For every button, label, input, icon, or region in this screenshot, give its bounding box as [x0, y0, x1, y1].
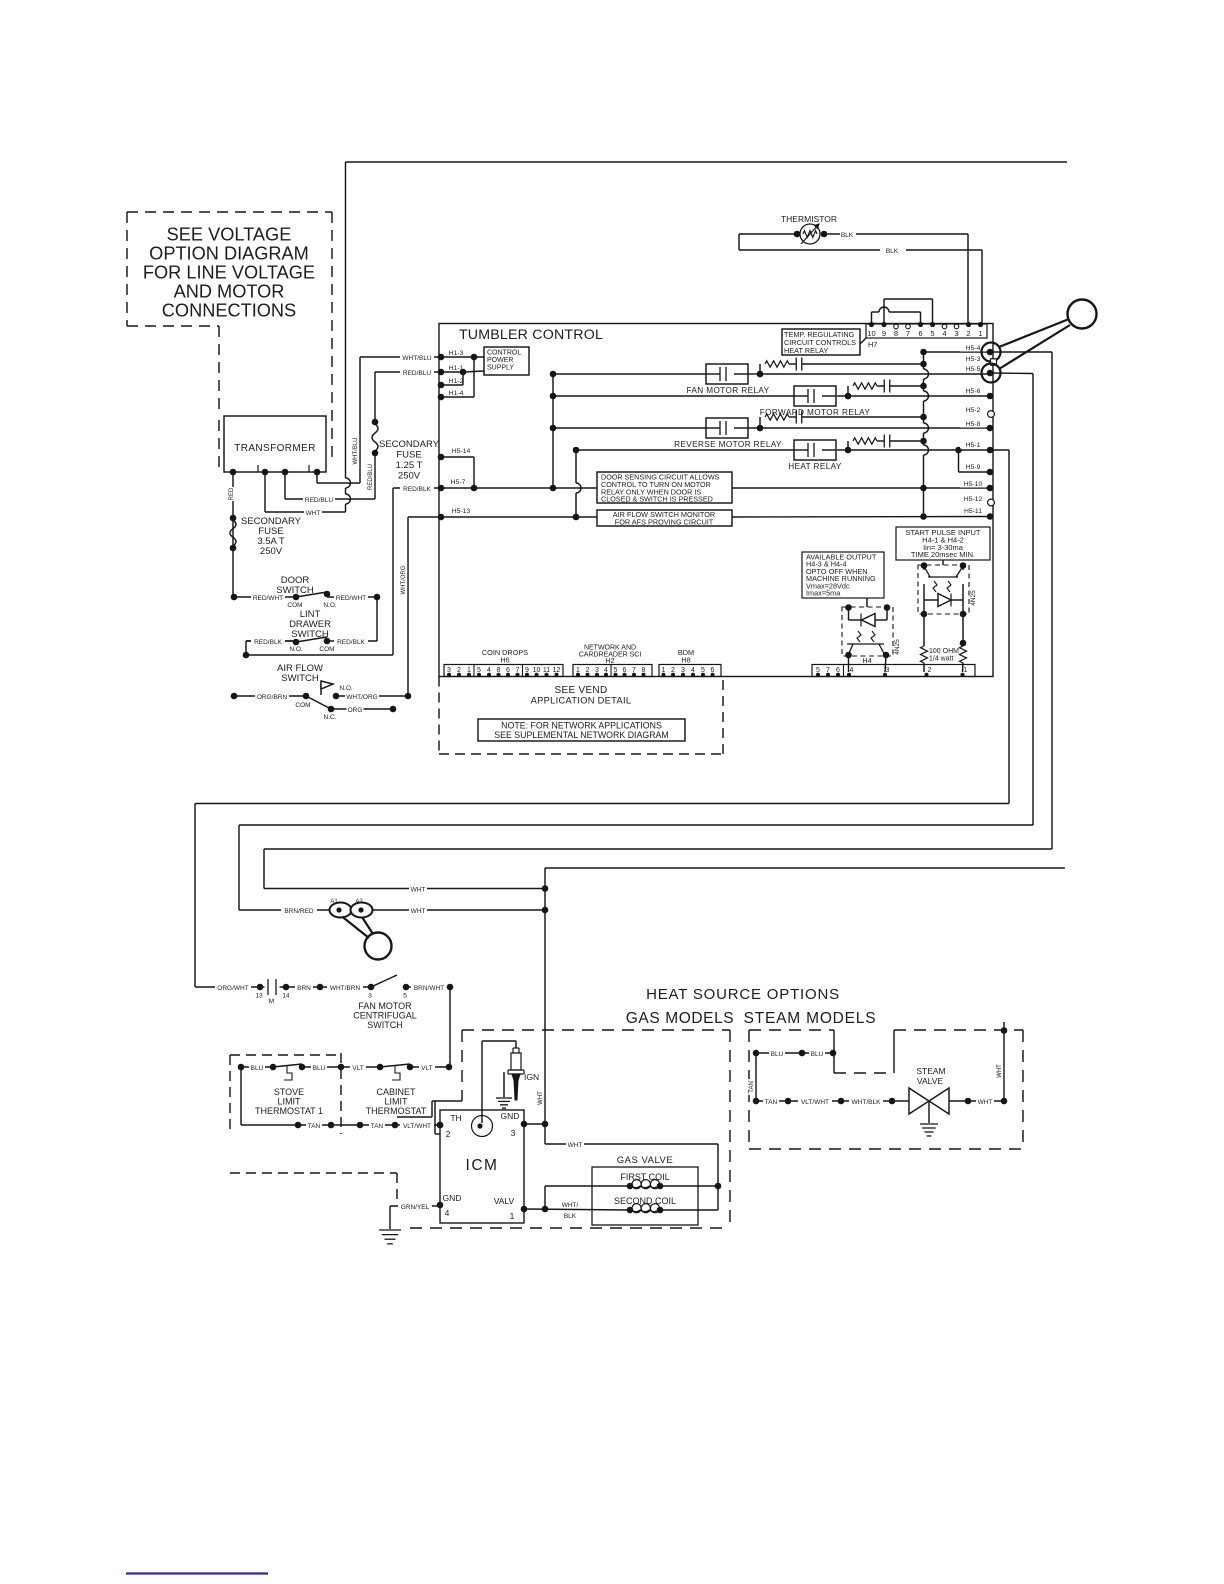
svg-text:H5-1: H5-1 — [966, 442, 981, 449]
svg-text:RED/WHT: RED/WHT — [336, 595, 366, 602]
svg-text:8: 8 — [894, 329, 898, 338]
svg-text:WHT/BLU: WHT/BLU — [402, 355, 432, 362]
svg-text:BRN/RED: BRN/RED — [284, 908, 314, 915]
svg-text:WHT/BLK: WHT/BLK — [852, 1099, 882, 1106]
svg-text:BLU: BLU — [811, 1051, 824, 1058]
svg-text:1: 1 — [510, 1211, 515, 1221]
svg-text:ORG/BRN: ORG/BRN — [257, 694, 288, 701]
svg-text:H5-6: H5-6 — [966, 388, 981, 395]
svg-text:BLK: BLK — [841, 232, 854, 239]
svg-text:BLU: BLU — [771, 1051, 784, 1058]
svg-text:CENTRIFUGAL: CENTRIFUGAL — [353, 1011, 417, 1021]
svg-text:HEAT RELAY: HEAT RELAY — [784, 346, 828, 355]
svg-text:TAN: TAN — [749, 1081, 755, 1093]
svg-text:H5-11: H5-11 — [964, 508, 982, 515]
svg-text:TH: TH — [450, 1113, 461, 1123]
svg-text:APPLICATION DETAIL: APPLICATION DETAIL — [531, 696, 632, 706]
svg-text:FAN MOTOR: FAN MOTOR — [358, 1001, 412, 1011]
svg-text:4: 4 — [850, 667, 854, 674]
svg-text:1: 1 — [978, 329, 982, 338]
svg-text:TIME 20msec MIN.: TIME 20msec MIN. — [911, 550, 975, 559]
svg-text:GAS MODELS: GAS MODELS — [626, 1010, 735, 1027]
svg-text:RED/BLU: RED/BLU — [403, 370, 431, 377]
svg-text:N.O.: N.O. — [323, 602, 337, 609]
svg-text:H8: H8 — [681, 656, 690, 665]
svg-text:SEE VOLTAGE: SEE VOLTAGE — [167, 225, 292, 245]
svg-text:SECONDARY: SECONDARY — [379, 439, 440, 450]
svg-text:H1-3: H1-3 — [449, 350, 464, 357]
svg-text:FORWARD MOTOR RELAY: FORWARD MOTOR RELAY — [760, 408, 871, 417]
svg-text:H1-2: H1-2 — [449, 378, 464, 385]
svg-text:SEE SUPLEMENTAL NETWORK DIA: SEE SUPLEMENTAL NETWORK DIAGRAM — [494, 730, 669, 740]
svg-text:GRN/YEL: GRN/YEL — [401, 1204, 430, 1211]
svg-text:RED: RED — [229, 487, 235, 500]
svg-text:THERMISTOR: THERMISTOR — [781, 214, 837, 224]
svg-text:WHT: WHT — [411, 887, 426, 894]
svg-text:STEAM MODELS: STEAM MODELS — [744, 1010, 877, 1027]
svg-text:RED/WHT: RED/WHT — [253, 595, 283, 602]
svg-text:H5-2: H5-2 — [966, 407, 981, 414]
svg-text:100 OHM: 100 OHM — [929, 648, 959, 655]
svg-text:3: 3 — [368, 993, 372, 1000]
svg-text:IGN: IGN — [524, 1072, 539, 1082]
svg-text:4: 4 — [942, 329, 946, 338]
svg-text:H5-7: H5-7 — [451, 479, 466, 486]
svg-text:FOR LINE VOLTAGE: FOR LINE VOLTAGE — [143, 263, 315, 283]
svg-text:AND MOTOR: AND MOTOR — [174, 282, 285, 302]
svg-text:H5-9: H5-9 — [966, 464, 981, 471]
svg-text:2: 2 — [966, 329, 970, 338]
svg-text:NOTE: FOR NETWORK APPLICATI: NOTE: FOR NETWORK APPLICATIONS — [501, 721, 662, 731]
svg-text:WHT/BRN: WHT/BRN — [330, 985, 361, 992]
svg-text:1/4 watt: 1/4 watt — [929, 656, 954, 663]
svg-text:OPTION DIAGRAM: OPTION DIAGRAM — [149, 244, 309, 264]
svg-text:RED/BLU: RED/BLU — [305, 497, 333, 504]
svg-text:H2: H2 — [606, 658, 615, 665]
svg-text:RED/BLU: RED/BLU — [368, 464, 374, 490]
svg-text:CONTROL: CONTROL — [487, 350, 521, 357]
svg-text:H5-10: H5-10 — [964, 481, 983, 488]
svg-text:STOVE: STOVE — [274, 1087, 304, 1097]
svg-text:N.O.: N.O. — [339, 685, 353, 692]
svg-text:H5-13: H5-13 — [452, 508, 471, 515]
svg-text:A2: A2 — [355, 899, 363, 905]
svg-text:THERMOSTAT 1: THERMOSTAT 1 — [255, 1106, 323, 1116]
svg-text:TAN: TAN — [765, 1099, 778, 1106]
svg-text:COM: COM — [295, 702, 310, 709]
svg-text:STEAM: STEAM — [916, 1066, 945, 1076]
svg-text:4N25: 4N25 — [970, 590, 977, 606]
svg-text:BLK: BLK — [886, 248, 899, 255]
svg-text:3: 3 — [954, 329, 958, 338]
svg-text:BRN/WHT: BRN/WHT — [414, 985, 444, 992]
svg-text:COM: COM — [319, 646, 334, 653]
svg-text:HEAT SOURCE OPTIONS: HEAT SOURCE OPTIONS — [646, 986, 840, 1003]
svg-text:ORG/WHT: ORG/WHT — [217, 985, 248, 992]
svg-text:WHT/BLU: WHT/BLU — [353, 438, 359, 465]
svg-text:WHT: WHT — [411, 908, 426, 915]
svg-text:WHT/ORG: WHT/ORG — [346, 694, 377, 701]
svg-text:POWER: POWER — [487, 357, 513, 364]
svg-text:10: 10 — [867, 329, 875, 338]
svg-text:FOR AFS PROVING CIRCUIT: FOR AFS PROVING CIRCUIT — [615, 518, 714, 527]
svg-text:THERMOSTAT: THERMOSTAT — [366, 1106, 427, 1116]
svg-text:NETWORK AND: NETWORK AND — [584, 645, 636, 652]
svg-text:H5-12: H5-12 — [964, 496, 983, 503]
svg-text:H5-5: H5-5 — [966, 366, 981, 373]
svg-text:HEAT RELAY: HEAT RELAY — [788, 462, 842, 471]
svg-text:CLOSED & SWITCH IS PRESSED: CLOSED & SWITCH IS PRESSED — [601, 495, 713, 504]
svg-text:CONNECTIONS: CONNECTIONS — [162, 301, 296, 321]
svg-text:WHT: WHT — [538, 1091, 544, 1105]
svg-text:RED/BLK: RED/BLK — [254, 639, 282, 646]
svg-text:H7: H7 — [868, 340, 877, 349]
svg-text:2: 2 — [446, 1129, 451, 1139]
svg-text:WHT/: WHT/ — [562, 1202, 579, 1209]
svg-text:250V: 250V — [260, 546, 283, 557]
svg-text:GND: GND — [443, 1193, 462, 1203]
svg-text:A1: A1 — [330, 899, 338, 905]
svg-text:14: 14 — [282, 993, 290, 1000]
svg-text:BRN: BRN — [297, 985, 311, 992]
svg-text:N.O.: N.O. — [289, 646, 303, 653]
svg-text:SWITCH: SWITCH — [367, 1020, 403, 1030]
svg-text:13: 13 — [255, 993, 263, 1000]
svg-text:RED/BLK: RED/BLK — [403, 486, 431, 493]
svg-text:VLT/WHT: VLT/WHT — [403, 1123, 431, 1130]
svg-text:4: 4 — [445, 1208, 450, 1218]
svg-text:2: 2 — [928, 667, 932, 674]
svg-text:CABINET: CABINET — [376, 1087, 416, 1097]
svg-text:GND: GND — [501, 1111, 520, 1121]
svg-text:H4: H4 — [862, 656, 871, 665]
svg-text:4N25: 4N25 — [894, 639, 901, 655]
svg-text:TAN: TAN — [308, 1123, 321, 1130]
svg-text:ORG: ORG — [348, 707, 363, 714]
svg-text:FIRST COIL: FIRST COIL — [620, 1172, 669, 1182]
svg-text:FUSE: FUSE — [396, 450, 421, 461]
svg-text:H5-4: H5-4 — [966, 345, 981, 352]
svg-text:VLT: VLT — [421, 1065, 432, 1072]
svg-text:3: 3 — [886, 667, 890, 674]
svg-text:Imax=5ma: Imax=5ma — [806, 589, 841, 598]
svg-text:9: 9 — [882, 329, 886, 338]
svg-text:SUPPLY: SUPPLY — [487, 365, 514, 372]
svg-text:BLU: BLU — [313, 1065, 326, 1072]
svg-text:WHT: WHT — [568, 1142, 583, 1149]
svg-text:7: 7 — [906, 329, 910, 338]
svg-text:GAS VALVE: GAS VALVE — [617, 1155, 673, 1166]
svg-text:WHT: WHT — [978, 1099, 993, 1106]
svg-text:VALVE: VALVE — [917, 1076, 943, 1086]
svg-text:5: 5 — [930, 329, 934, 338]
svg-text:SWITCH: SWITCH — [291, 629, 329, 640]
svg-text:H5-14: H5-14 — [452, 448, 471, 455]
svg-text:VLT/WHT: VLT/WHT — [801, 1099, 829, 1106]
svg-text:1: 1 — [964, 667, 968, 674]
svg-text:ICM: ICM — [466, 1157, 499, 1174]
svg-text:M: M — [269, 998, 274, 1005]
svg-text:TUMBLER CONTROL: TUMBLER CONTROL — [459, 327, 603, 343]
svg-text:SEE VEND: SEE VEND — [555, 685, 608, 696]
svg-text:1.25 T: 1.25 T — [396, 460, 423, 471]
svg-text:WHT: WHT — [997, 1064, 1003, 1078]
svg-text:VLT: VLT — [352, 1065, 363, 1072]
svg-text:FAN MOTOR RELAY: FAN MOTOR RELAY — [686, 386, 769, 395]
svg-text:WHT/ORG: WHT/ORG — [401, 565, 407, 594]
svg-text:H5-3: H5-3 — [966, 356, 981, 363]
svg-text:LIMIT: LIMIT — [384, 1097, 408, 1107]
svg-text:N.C.: N.C. — [324, 714, 337, 721]
svg-text:RED/BLK: RED/BLK — [337, 639, 365, 646]
svg-text:TAN: TAN — [371, 1123, 384, 1130]
svg-text:LIMIT: LIMIT — [277, 1097, 301, 1107]
svg-text:3: 3 — [511, 1128, 516, 1138]
svg-text:SWITCH: SWITCH — [281, 673, 319, 684]
svg-text:VALV: VALV — [494, 1196, 515, 1206]
svg-text:H5-8: H5-8 — [966, 421, 981, 428]
svg-text:H1-4: H1-4 — [449, 390, 464, 397]
svg-text:SECOND COIL: SECOND COIL — [614, 1196, 676, 1206]
svg-text:WHT: WHT — [306, 510, 321, 517]
svg-text:5: 5 — [403, 993, 407, 1000]
svg-text:COM: COM — [287, 602, 302, 609]
svg-text:6: 6 — [918, 329, 922, 338]
svg-text:REVERSE MOTOR RELAY: REVERSE MOTOR RELAY — [674, 440, 782, 449]
svg-text:250V: 250V — [398, 471, 421, 482]
svg-text:BLK: BLK — [564, 1213, 577, 1220]
svg-text:TRANSFORMER: TRANSFORMER — [234, 443, 316, 454]
svg-text:BLU: BLU — [251, 1065, 264, 1072]
svg-text:H6: H6 — [500, 656, 509, 665]
